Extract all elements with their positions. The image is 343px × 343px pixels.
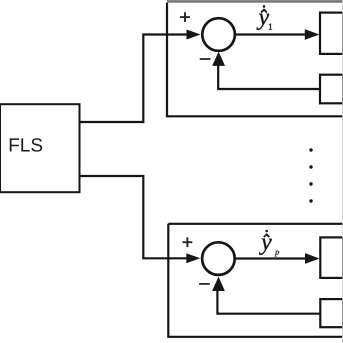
summing junction 2	[202, 242, 235, 275]
right edge crop artifact line	[342, 0, 343, 343]
minus sign (junction 2)	[199, 283, 210, 285]
model box 2b	[320, 299, 343, 327]
minus sign (junction 1)	[200, 58, 211, 60]
arrowhead up into junction 2	[212, 277, 225, 291]
feedback wire 2 from box 2b to junction 2	[217, 289, 320, 314]
block FLS	[0, 104, 80, 192]
label y-hat-dot 1	[256, 5, 272, 30]
plus sign (junction 2)	[183, 237, 193, 247]
arrow from junction 1 to model box 1a	[235, 33, 306, 35]
wire upper branch from FLS to summing junction 1	[80, 35, 189, 123]
subsystem box 1 (outer)	[167, 1, 343, 116]
plus sign (junction 1)	[180, 12, 190, 22]
wire lower branch from FLS to summing junction 2	[80, 176, 189, 258]
model box 1a	[320, 13, 343, 54]
label y-hat-dot p	[259, 230, 279, 257]
arrowhead up into junction 1	[212, 52, 225, 66]
model box 1b	[320, 75, 343, 104]
feedback wire 1 from box 1b to junction 1	[218, 64, 320, 89]
vertical ellipsis dots	[309, 148, 312, 202]
arrowhead into summing junction 2	[186, 253, 200, 263]
arrowhead into summing junction 1	[187, 30, 201, 40]
model box 2a	[320, 237, 343, 278]
subsystem box 2 (outer)	[168, 224, 343, 337]
arrow from junction 2 to model box 2a	[235, 257, 306, 259]
summing junction 1	[202, 18, 235, 51]
